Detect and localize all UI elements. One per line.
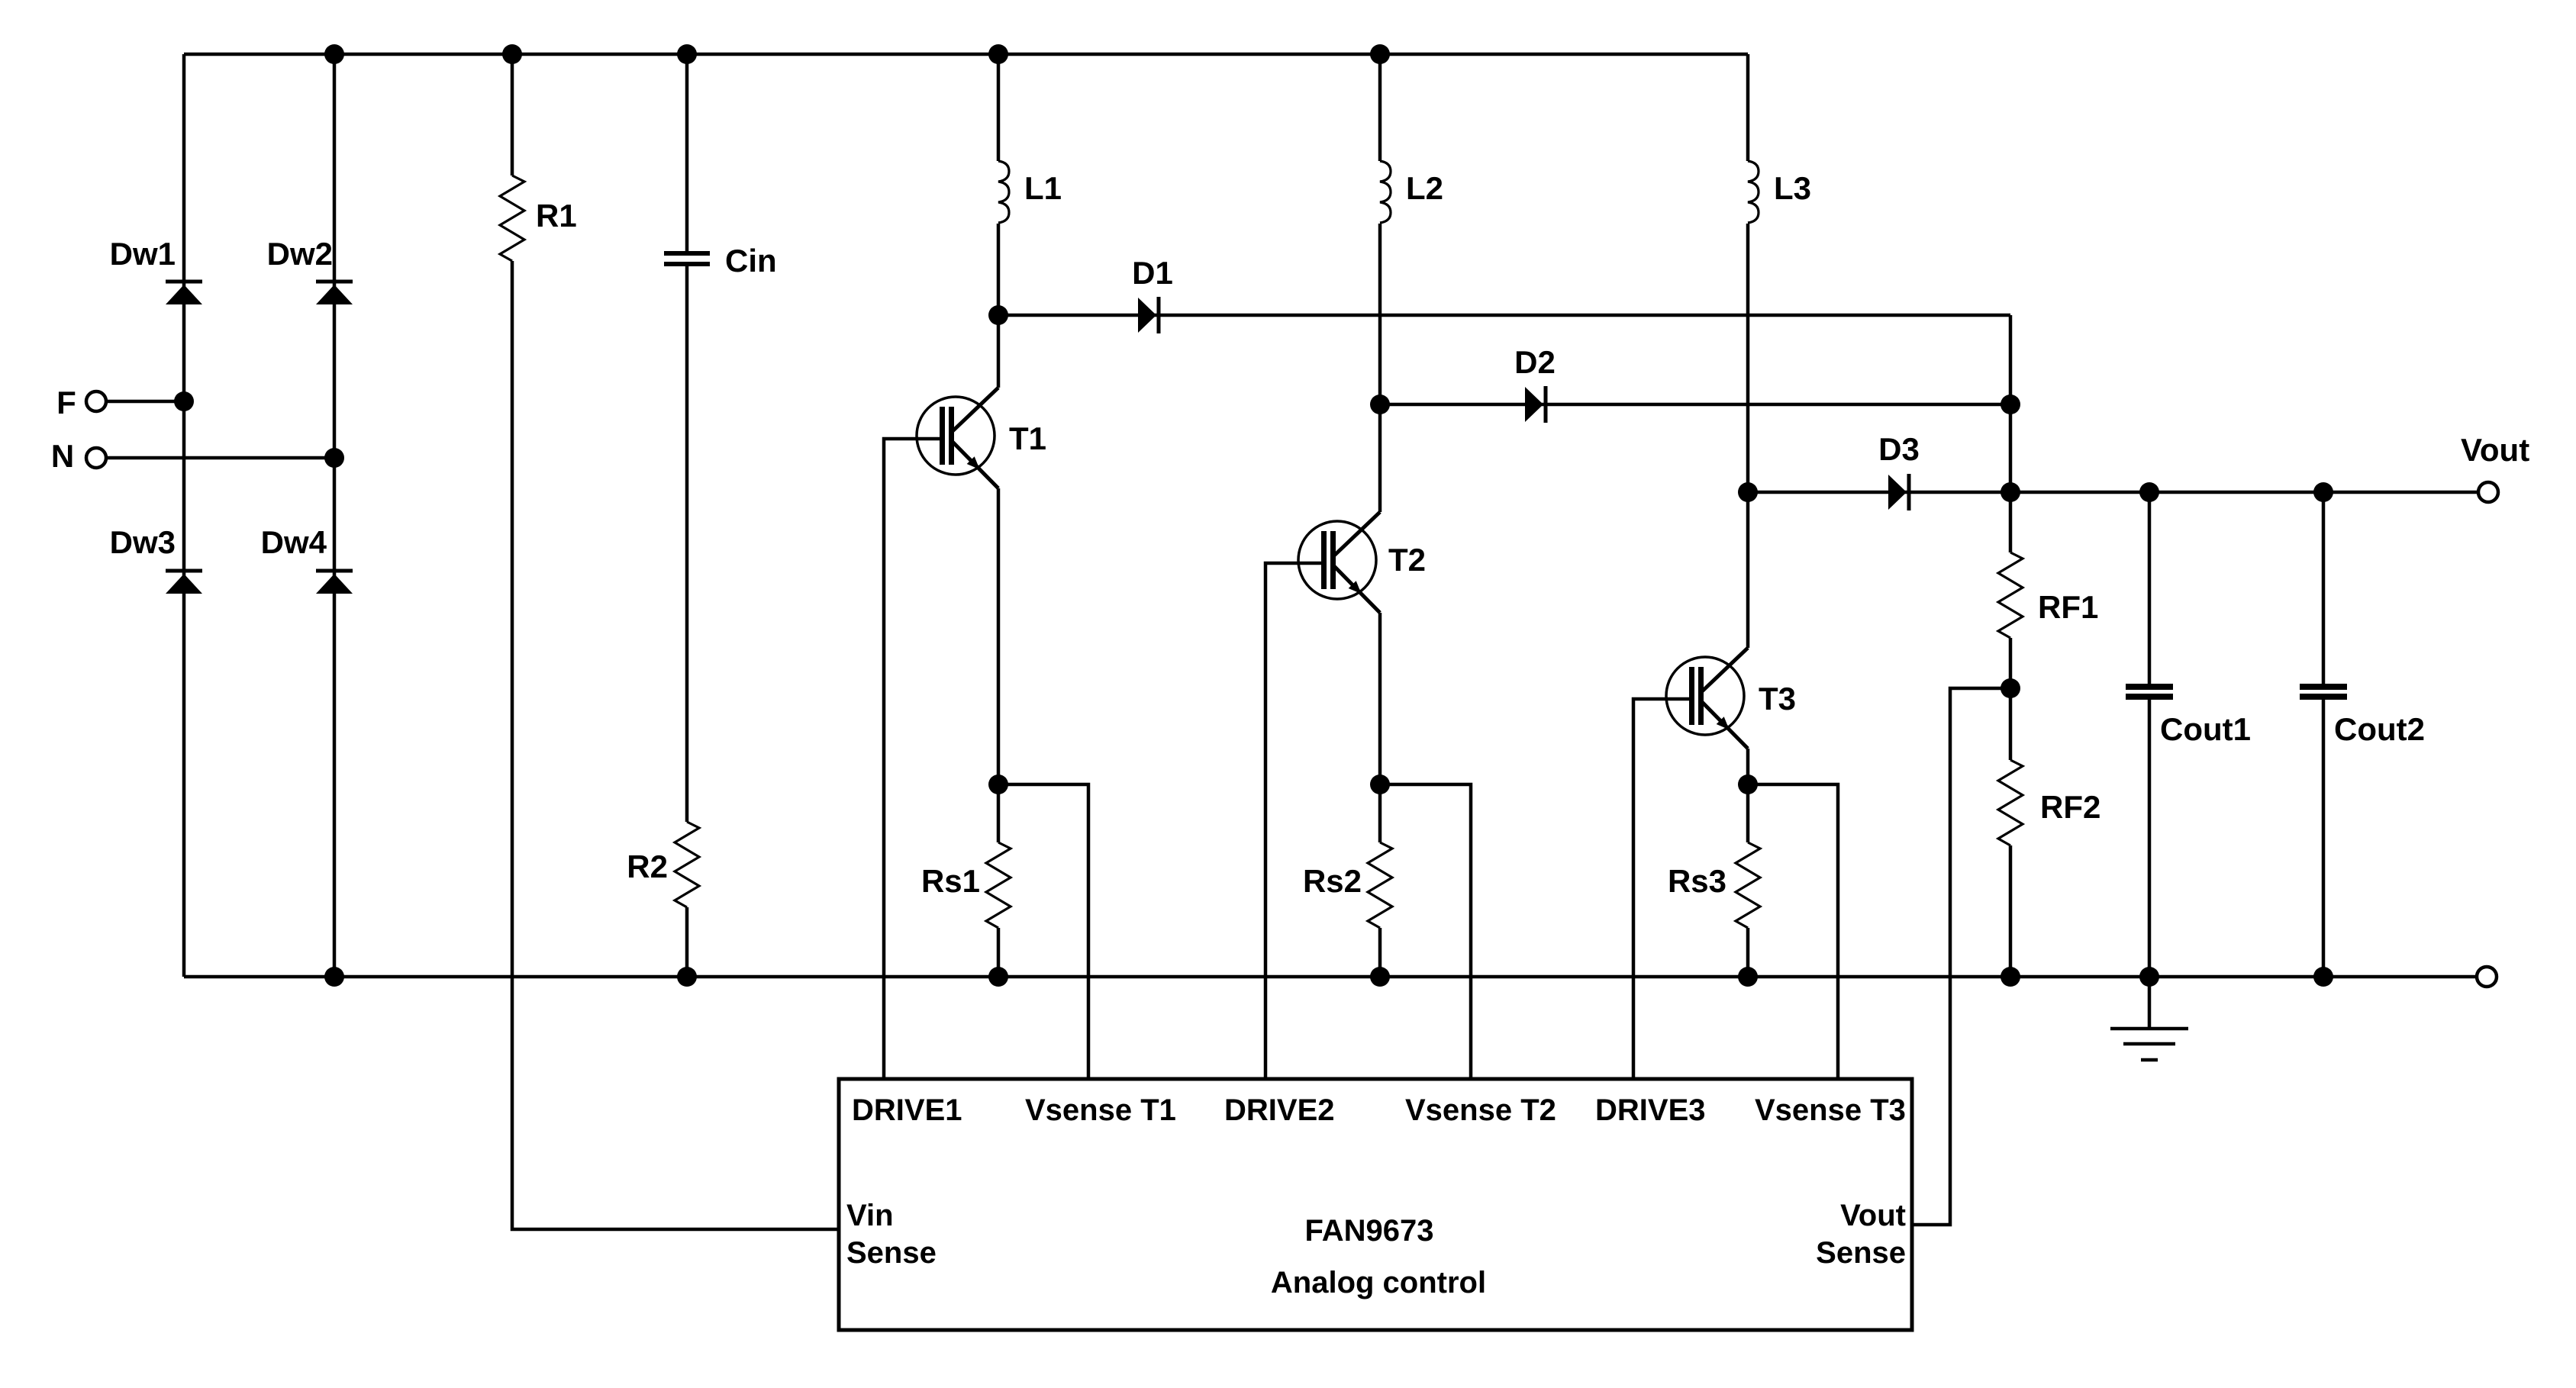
- svg-text:L1: L1: [1024, 170, 1062, 206]
- svg-text:Cin: Cin: [725, 243, 777, 279]
- svg-text:DRIVE3: DRIVE3: [1595, 1093, 1706, 1127]
- svg-text:Sense: Sense: [1816, 1236, 1906, 1270]
- svg-text:Sense: Sense: [846, 1236, 937, 1270]
- svg-text:Dw1: Dw1: [110, 236, 176, 272]
- svg-text:N: N: [51, 438, 74, 474]
- svg-text:F: F: [56, 385, 76, 420]
- svg-text:Vout: Vout: [2461, 432, 2529, 468]
- svg-text:Rs3: Rs3: [1668, 863, 1726, 899]
- svg-text:L2: L2: [1406, 170, 1443, 206]
- svg-text:Vsense T3: Vsense T3: [1755, 1093, 1906, 1127]
- svg-text:DRIVE2: DRIVE2: [1224, 1093, 1335, 1127]
- svg-text:Vsense T1: Vsense T1: [1025, 1093, 1176, 1127]
- svg-text:FAN9673: FAN9673: [1305, 1214, 1434, 1248]
- svg-text:Dw2: Dw2: [267, 236, 333, 272]
- svg-text:L3: L3: [1774, 170, 1811, 206]
- svg-text:RF1: RF1: [2038, 589, 2098, 625]
- svg-text:T2: T2: [1388, 542, 1426, 578]
- svg-text:D3: D3: [1878, 431, 1920, 467]
- svg-text:Rs2: Rs2: [1303, 863, 1362, 899]
- svg-text:Analog control: Analog control: [1271, 1266, 1486, 1299]
- svg-text:Cout2: Cout2: [2334, 711, 2425, 747]
- svg-text:Dw3: Dw3: [110, 524, 176, 560]
- svg-text:R2: R2: [627, 849, 668, 884]
- svg-text:Rs1: Rs1: [921, 863, 980, 899]
- svg-text:Vin: Vin: [846, 1199, 894, 1232]
- svg-text:D1: D1: [1132, 255, 1173, 291]
- svg-text:R1: R1: [536, 198, 577, 233]
- svg-text:T1: T1: [1009, 420, 1046, 456]
- svg-text:DRIVE1: DRIVE1: [852, 1093, 962, 1127]
- svg-text:T3: T3: [1759, 681, 1796, 717]
- svg-text:RF2: RF2: [2040, 789, 2100, 825]
- svg-text:Dw4: Dw4: [261, 524, 327, 560]
- svg-text:Vout: Vout: [1840, 1199, 1906, 1232]
- svg-text:Vsense T2: Vsense T2: [1405, 1093, 1556, 1127]
- svg-text:D2: D2: [1514, 344, 1556, 380]
- svg-text:Cout1: Cout1: [2160, 711, 2251, 747]
